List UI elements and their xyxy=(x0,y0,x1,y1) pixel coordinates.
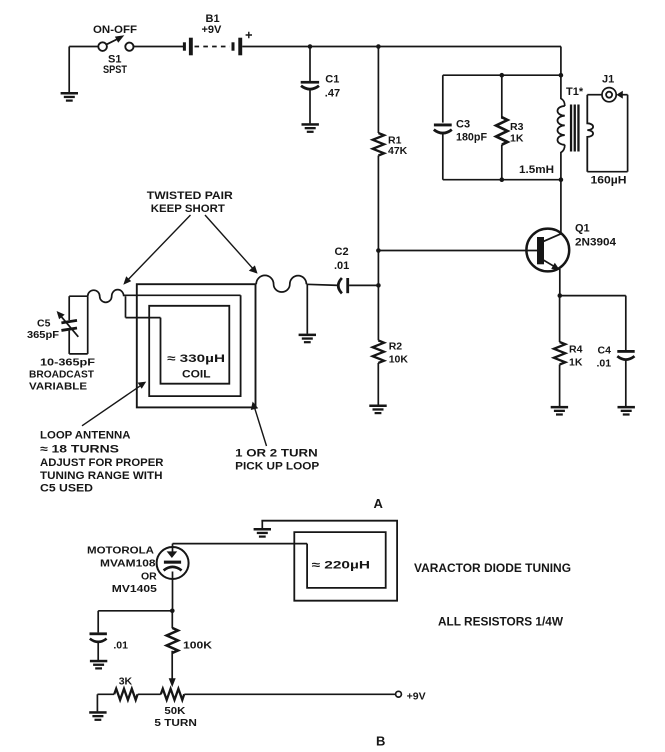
svg-text:A: A xyxy=(374,496,384,511)
terminal +9V open circle xyxy=(396,691,402,697)
arrowhead right xyxy=(249,265,258,273)
connector J1 inner circle xyxy=(606,92,612,98)
resistor R2 xyxy=(373,340,384,363)
svg-text:R4: R4 xyxy=(569,343,583,355)
inductor 220uH spiral xyxy=(261,521,397,601)
svg-text:.01: .01 xyxy=(334,260,349,272)
battery B1 cell2 short plate xyxy=(232,42,235,50)
wire coil turn1 top xyxy=(124,294,241,296)
wire R3 upper lead xyxy=(501,75,503,119)
varactor D1 curved plate xyxy=(164,567,182,571)
svg-text:ON-OFF: ON-OFF xyxy=(93,24,137,36)
svg-text:1 OR 2 TURN: 1 OR 2 TURN xyxy=(235,448,318,460)
svg-text:C4: C4 xyxy=(598,344,612,356)
svg-text:R3: R3 xyxy=(510,121,524,133)
svg-text:≈ 330µH: ≈ 330µH xyxy=(167,353,225,365)
varactor D1 cathode bar xyxy=(164,561,181,564)
wire secondary loop right side xyxy=(627,95,629,172)
wire C3 upper lead xyxy=(442,75,444,122)
transistor Q1 circle xyxy=(526,229,569,272)
capacitor C5 arrowhead xyxy=(57,311,65,319)
switch S1 lever arm xyxy=(107,38,120,44)
transformer T1 core bars xyxy=(570,105,580,152)
node dot base tee xyxy=(376,248,381,253)
transistor Q1 base bar xyxy=(537,237,544,264)
capacitor C1 flat plate xyxy=(301,81,319,84)
svg-text:3K: 3K xyxy=(119,676,133,688)
svg-text:MVAM108: MVAM108 xyxy=(100,558,156,570)
capacitor C4 curved plate xyxy=(617,356,634,359)
svg-text:OR: OR xyxy=(141,571,157,583)
svg-text:C1: C1 xyxy=(325,74,339,86)
annotation arrow to loop antenna xyxy=(82,384,143,426)
switch S1 contact circle right xyxy=(125,43,133,51)
svg-text:VARACTOR DIODE TUNING: VARACTOR DIODE TUNING xyxy=(414,563,571,575)
ground (R4) xyxy=(551,406,568,416)
battery B1 dashed link xyxy=(195,46,230,48)
resistor R4 xyxy=(554,342,565,365)
wire C1 branch upper xyxy=(309,47,311,82)
svg-text:5 TURN: 5 TURN xyxy=(154,717,197,729)
wire ground stem 220uH xyxy=(261,521,263,529)
svg-text:180pF: 180pF xyxy=(456,131,487,143)
svg-text:PICK UP LOOP: PICK UP LOOP xyxy=(235,461,319,473)
battery plus sign xyxy=(246,32,252,38)
svg-text:1K: 1K xyxy=(510,133,524,145)
capacitor C3 flat plate xyxy=(434,124,452,127)
svg-text:100K: 100K xyxy=(183,640,212,652)
wire .01 lower lead xyxy=(97,642,99,660)
svg-text:ADJUST FOR PROPER: ADJUST FOR PROPER xyxy=(40,457,164,469)
wire C1 to ground xyxy=(309,90,311,124)
node dot varactor junction xyxy=(170,609,175,614)
svg-text:LOOP ANTENNA: LOOP ANTENNA xyxy=(40,430,131,442)
connector J1 outer circle xyxy=(602,88,616,102)
wire C5 loop bottom xyxy=(69,353,88,355)
capacitor C4 flat plate xyxy=(617,350,634,353)
arrowhead pickup loop xyxy=(251,402,258,410)
svg-text:365pF: 365pF xyxy=(27,329,60,341)
ground (220uH coil) xyxy=(254,528,271,538)
wire twisted pair inner-end vertical xyxy=(125,296,127,317)
transistor Q1 emitter arrowhead xyxy=(551,263,559,270)
wire J1 to right corner xyxy=(622,94,628,96)
node dot box bottom at T1 rail xyxy=(559,177,564,182)
capacitor C2 curved plate xyxy=(338,278,342,293)
varactor D1 bottom lead xyxy=(172,572,174,611)
node junction dot at C1 xyxy=(308,44,313,49)
node dot box bottom at R3 xyxy=(500,177,505,182)
node dot box top at R3 xyxy=(500,73,505,78)
wire secondary loop bottom xyxy=(587,171,627,173)
wire coil inner end to varactor xyxy=(173,543,308,545)
svg-text:T1*: T1* xyxy=(566,86,584,98)
transistor Q1 collector diagonal xyxy=(543,234,561,242)
wire from rail down to ground at S1 xyxy=(68,47,70,93)
wire center rail upper (R1 top lead) xyxy=(377,47,379,134)
annotation arrow to pickup loop xyxy=(255,409,267,447)
ground (twisted pair tap) xyxy=(299,334,316,344)
battery B1 cell1 long plate xyxy=(189,38,193,56)
wire base xyxy=(378,250,537,252)
wire secondary top to J1 xyxy=(587,94,602,96)
varactor D1 top lead xyxy=(172,544,174,552)
resistor R1 xyxy=(373,133,384,156)
svg-text:MV1405: MV1405 xyxy=(112,583,157,595)
svg-text:COIL: COIL xyxy=(182,368,211,380)
wire R4 lower lead xyxy=(559,365,561,407)
node dot C2 junction xyxy=(376,283,381,288)
svg-text:C2: C2 xyxy=(335,246,349,258)
wire junction to .01 branch xyxy=(98,610,172,612)
svg-text:.01: .01 xyxy=(597,357,612,369)
wire C5 bottom lead xyxy=(68,331,70,354)
varactor D1 circle xyxy=(157,547,189,579)
node dot emitter junction xyxy=(558,293,563,298)
ground (R2) xyxy=(369,405,386,415)
switch S1 contact circle left xyxy=(98,42,107,51)
wire R4 upper lead xyxy=(559,296,561,342)
svg-text:R2: R2 xyxy=(389,340,403,352)
capacitor C5 arrow xyxy=(60,315,78,337)
svg-text:C5 USED: C5 USED xyxy=(40,483,93,495)
battery B1 cell1 short plate xyxy=(183,42,186,50)
twisted pair left bumps xyxy=(88,290,124,303)
capacitor C1 curved plate xyxy=(301,86,319,89)
svg-text:.47: .47 xyxy=(325,88,340,100)
wire center rail middle xyxy=(377,156,379,341)
capacitor .01 flat plate xyxy=(90,632,107,635)
wire rail between 3K and 50K xyxy=(138,693,161,695)
wire C3/R3 box top rail xyxy=(443,74,561,76)
svg-text:.01: .01 xyxy=(113,640,128,652)
twisted pair right bumps xyxy=(256,275,306,292)
svg-text:TWISTED PAIR: TWISTED PAIR xyxy=(147,190,233,202)
transformer T1 secondary winding xyxy=(587,95,593,172)
wire R3 lower lead xyxy=(501,145,503,180)
wire twisted pair to C2 xyxy=(306,284,338,285)
potentiometer 50K xyxy=(161,689,184,700)
svg-text:1.5mH: 1.5mH xyxy=(519,164,554,176)
svg-text:ALL RESISTORS 1/4W: ALL RESISTORS 1/4W xyxy=(438,616,563,628)
transformer T1 primary lead bottom xyxy=(561,145,565,180)
arrowhead loop antenna xyxy=(138,382,147,389)
wire bottom rail ground stem xyxy=(96,694,98,711)
svg-text:C5: C5 xyxy=(37,317,51,329)
ground (3K) xyxy=(89,711,106,721)
wire 100K upper lead xyxy=(171,611,173,629)
wire battery to C1 junction and on to T1 corner xyxy=(242,46,561,48)
svg-text:TUNING RANGE WITH: TUNING RANGE WITH xyxy=(40,470,163,482)
switch S1 lever arrowhead xyxy=(115,35,124,42)
varactor D1 anode triangle xyxy=(167,551,178,558)
svg-text:+9V: +9V xyxy=(202,24,223,36)
wire C4 lower lead xyxy=(625,360,627,406)
wiper arrowhead xyxy=(169,678,176,687)
ground (C4) xyxy=(618,406,635,416)
svg-text:10K: 10K xyxy=(389,353,409,365)
svg-text:47K: 47K xyxy=(388,145,408,157)
capacitor C5 plate lower xyxy=(61,327,77,332)
svg-text:MOTOROLA: MOTOROLA xyxy=(87,545,154,557)
wire switch to battery xyxy=(133,46,183,48)
transistor Q1 emitter diagonal xyxy=(543,260,557,268)
resistor 3K xyxy=(114,689,137,700)
wire wiper stem xyxy=(171,651,173,681)
wire emitter vertical xyxy=(559,269,561,296)
connector J1 arrow xyxy=(616,91,622,99)
wire top rail left of switch xyxy=(69,46,98,48)
wire C5 to twisted pair xyxy=(69,295,88,297)
capacitor C3 curved plate xyxy=(434,130,452,134)
loop antenna 330uH spiral xyxy=(149,295,240,396)
ground (.01) xyxy=(90,660,107,670)
ground (C1) xyxy=(302,123,319,133)
node dot box top at T1 rail xyxy=(559,73,564,78)
svg-text:10-365pF: 10-365pF xyxy=(40,356,96,368)
battery B1 cell2 long plate xyxy=(238,38,242,56)
svg-text:B1: B1 xyxy=(206,13,220,25)
wire emitter node to C4 xyxy=(560,295,626,297)
wire C3/R3 box bottom rail xyxy=(443,179,561,181)
wire R2 lower lead xyxy=(377,363,379,405)
wire C4 upper lead xyxy=(625,296,627,350)
svg-text:BROADCAST: BROADCAST xyxy=(29,369,95,381)
svg-text:VARIABLE: VARIABLE xyxy=(29,381,87,393)
wire .01 upper lead xyxy=(97,611,99,633)
transformer T1 primary lead top xyxy=(561,75,565,106)
capacitor C5 top lead xyxy=(68,296,70,320)
svg-text:KEEP SHORT: KEEP SHORT xyxy=(151,203,225,215)
annotation arrow to right twisted pair xyxy=(205,215,254,270)
svg-text:+9V: +9V xyxy=(407,691,426,703)
resistor 100K xyxy=(167,628,178,653)
svg-text:1K: 1K xyxy=(569,356,583,368)
svg-text:≈ 18 TURNS: ≈ 18 TURNS xyxy=(40,444,119,456)
capacitor C5 plate upper xyxy=(61,319,77,324)
wire ground tap below right twisted pair xyxy=(306,284,308,334)
arrowhead left xyxy=(123,276,131,285)
resistor R3 xyxy=(496,117,507,144)
wire C2 right to rail xyxy=(349,284,378,286)
annotation arrow to left twisted pair xyxy=(127,215,191,281)
wire bottom rail right xyxy=(184,693,395,695)
capacitor C2 flat plate xyxy=(346,278,349,293)
ground (S1) xyxy=(61,92,78,102)
capacitor .01 curved plate xyxy=(90,639,107,642)
pickup loop rectangle xyxy=(137,284,256,407)
wire bottom rail left xyxy=(97,693,114,695)
svg-text:2N3904: 2N3904 xyxy=(575,236,617,248)
wire collector rail xyxy=(560,180,562,234)
node junction dot at R1 rail xyxy=(376,44,381,49)
svg-text:Q1: Q1 xyxy=(575,223,590,235)
wire coil inner-end exit xyxy=(126,317,161,319)
wire C3 lower lead xyxy=(442,133,444,180)
wire C5 loop right side xyxy=(87,296,89,354)
wire top rail corner down to box top xyxy=(560,47,562,76)
svg-text:J1: J1 xyxy=(602,74,614,86)
transformer T1 primary winding xyxy=(558,106,565,145)
svg-text:160µH: 160µH xyxy=(591,175,627,187)
svg-text:B: B xyxy=(376,734,385,749)
svg-text:≈ 220µH: ≈ 220µH xyxy=(312,559,371,571)
svg-text:C3: C3 xyxy=(456,118,470,130)
svg-text:50K: 50K xyxy=(164,705,185,717)
svg-text:SPST: SPST xyxy=(103,64,127,76)
